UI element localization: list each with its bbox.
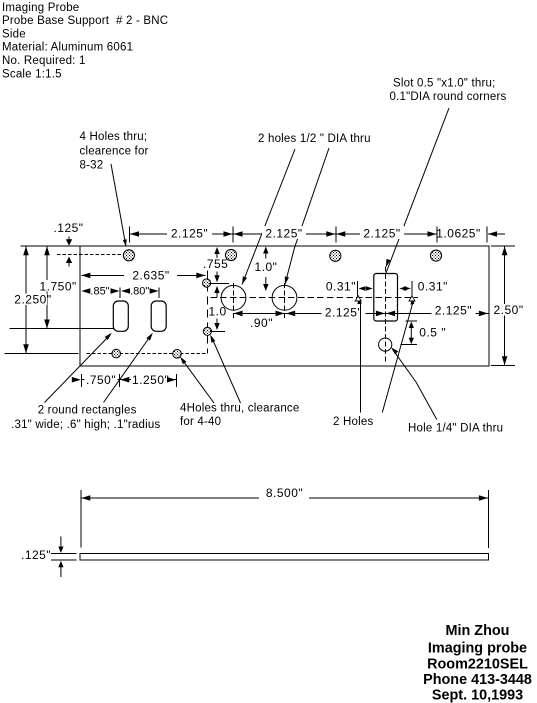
arrow left end of 2.125 to slot bbox=[286, 311, 295, 317]
label: 2 holes 1/2 DIA thru bbox=[258, 133, 371, 145]
hole H3 8-32 clearance bbox=[330, 250, 341, 261]
centerline bottom 4-40 row (dashed) bbox=[87, 353, 208, 355]
hole S4 4-40 clearance bbox=[173, 350, 182, 359]
tick at right edge bbox=[486, 227, 488, 243]
svg-text:Phone 413-3448: Phone 413-3448 bbox=[423, 672, 532, 688]
svg-text:2 holes 1/2 " DIA thru: 2 holes 1/2 " DIA thru bbox=[258, 133, 371, 145]
dimension 8.500 bbox=[81, 486, 488, 501]
title text: Probe Base Support # 2 - BNC bbox=[2, 15, 168, 27]
centerline vertical hole U2 (dashed) bbox=[284, 283, 286, 318]
svg-text:.125": .125" bbox=[53, 221, 83, 235]
leader to hole Q1 bbox=[391, 348, 437, 420]
extension line at 1/4 hole centerline bbox=[401, 344, 418, 346]
dimension 1.750 left bbox=[39, 246, 77, 328]
hole U1 1/2 DIA bbox=[221, 285, 246, 310]
leader 2 Holes left bbox=[355, 296, 362, 413]
svg-text:Sept. 10,1993: Sept. 10,1993 bbox=[432, 688, 523, 703]
extension line right for 8.500 bbox=[487, 490, 489, 548]
svg-text:1.0": 1.0" bbox=[255, 260, 278, 274]
extension line for 1.750 bbox=[9, 328, 113, 330]
hole S3 4-40 clearance bbox=[112, 349, 121, 358]
tick at hole H2 bbox=[232, 227, 234, 243]
svg-text:2 round rectangles: 2 round rectangles bbox=[38, 405, 137, 417]
svg-text:Material: Aluminum 6061: Material: Aluminum 6061 bbox=[2, 42, 133, 54]
arrow outside right for 1.0625 bbox=[488, 231, 497, 237]
dimension .755 bbox=[203, 247, 228, 282]
arrows .90 bbox=[234, 311, 285, 317]
svg-text:Probe Base Support # 2 - BNC: Probe Base Support # 2 - BNC bbox=[2, 15, 168, 27]
label: 4Holes thru clearance for 4-40 bbox=[180, 403, 299, 428]
tick at R1 center bbox=[119, 374, 121, 387]
hole H1 8-32 clearance bbox=[123, 250, 134, 261]
hole S2 4-40 clearance bbox=[203, 327, 211, 335]
tick at hole S4 bbox=[176, 374, 178, 387]
dimension text .90 bbox=[250, 316, 273, 330]
svg-text:0.31": 0.31" bbox=[418, 280, 448, 294]
svg-text:Imaging probe: Imaging probe bbox=[428, 641, 527, 657]
dimension text 1.250 bbox=[131, 373, 169, 387]
svg-text:clearence for: clearence for bbox=[80, 146, 149, 158]
hole S1 4-40 clearance bbox=[203, 279, 211, 287]
signature: Min Zhou bbox=[446, 623, 510, 639]
arrows segment1 bbox=[130, 231, 233, 237]
signature: Sept. 10,1993 bbox=[432, 688, 523, 703]
label: 4 Holes thru clearence for 8-32 bbox=[80, 131, 149, 172]
dimension text 2.125 to edge bbox=[432, 304, 476, 318]
svg-text:Room2210SEL: Room2210SEL bbox=[427, 657, 528, 673]
title text: No. Required: 1 bbox=[2, 55, 86, 67]
svg-text:1.0625": 1.0625" bbox=[436, 227, 480, 241]
centerline vertical hole U1 (dashed) bbox=[233, 283, 235, 318]
dimension text 2.125 third bbox=[360, 226, 404, 241]
side view plate outline bbox=[80, 554, 489, 561]
dimension .125 thickness bbox=[21, 537, 77, 578]
dimension 2.250 left bbox=[14, 246, 52, 353]
svg-text:for 4-40: for 4-40 bbox=[180, 416, 221, 428]
signature: Room2210SEL bbox=[427, 657, 528, 673]
hole H2 8-32 clearance bbox=[225, 249, 236, 260]
rounded rectangle R2 bbox=[151, 301, 166, 331]
dimension 0.5 bbox=[406, 321, 447, 344]
svg-text:4Holes thru, clearance: 4Holes thru, clearance bbox=[180, 403, 299, 415]
svg-text:Hole 1/4" DIA thru: Hole 1/4" DIA thru bbox=[408, 423, 503, 435]
title text: Imaging Probe bbox=[2, 2, 79, 14]
label: Slot 0.5 x1.0 thru 0.1 DIA round corners bbox=[390, 78, 507, 104]
extension stub at hole S1 bbox=[209, 282, 230, 284]
leader to hole U1 bbox=[242, 149, 295, 285]
tick at hole H3 bbox=[335, 227, 337, 243]
svg-text:.750": .750" bbox=[86, 373, 116, 387]
slot 0.5x1.0 bbox=[374, 274, 398, 322]
extension stub at hole S2 bbox=[210, 330, 225, 332]
dimension 0.31 right of slot bbox=[399, 280, 448, 297]
dimension 1.0 inch from top edge bbox=[255, 247, 278, 292]
svg-text:Min Zhou: Min Zhou bbox=[446, 623, 510, 639]
svg-text:.125": .125" bbox=[21, 548, 51, 562]
svg-text:Imaging Probe: Imaging Probe bbox=[2, 2, 79, 14]
signature: Phone 413-3448 bbox=[423, 672, 532, 688]
label: 2 round rectangles bbox=[11, 405, 160, 431]
arrows 1.250 bbox=[120, 377, 176, 383]
tick at hole H4 bbox=[436, 227, 438, 243]
svg-text:2.50": 2.50" bbox=[494, 303, 524, 317]
signature: Imaging probe bbox=[428, 641, 527, 657]
dimension row .750 / 1.250 below plate bbox=[81, 379, 176, 381]
dimension text 1.0625 bbox=[436, 227, 480, 241]
svg-text:2.250": 2.250" bbox=[14, 293, 51, 307]
leader 2 Holes right bbox=[382, 296, 415, 413]
dimension 0.31 left of slot bbox=[326, 280, 373, 297]
plate front view outline bbox=[80, 246, 489, 366]
arrows at slot center bbox=[376, 311, 395, 317]
top edge extension line bbox=[20, 245, 80, 247]
rounded rectangle R1 bbox=[113, 301, 128, 331]
hole U2 1/2 DIA bbox=[272, 285, 297, 310]
leader to hole U2 bbox=[285, 148, 329, 285]
dimension .125 top left bbox=[53, 221, 83, 267]
centerline vertical slot and 1/4 hole (dashed) bbox=[385, 267, 387, 364]
dimension text 2.125 first bbox=[167, 226, 212, 241]
dimension text 2.125 second bbox=[262, 226, 306, 241]
hole Q1 1/4 DIA bbox=[379, 338, 392, 351]
title text: Scale 1:1.5 bbox=[2, 68, 62, 80]
svg-text:2.125": 2.125" bbox=[363, 227, 400, 241]
svg-text:8.500": 8.500" bbox=[266, 486, 303, 500]
svg-text:1.0: 1.0 bbox=[209, 305, 227, 319]
svg-text:0.1"DIA round corners: 0.1"DIA round corners bbox=[390, 91, 507, 103]
dimension .80 bbox=[121, 286, 159, 299]
svg-text:Side: Side bbox=[2, 29, 26, 41]
dimension text 2.125 to slot bbox=[322, 306, 366, 320]
dimension 2.50 right side bbox=[492, 246, 524, 365]
extension line left for 8.500 bbox=[80, 490, 82, 548]
leader to 8-32 hole H1 bbox=[111, 164, 127, 247]
svg-text:2.125": 2.125" bbox=[171, 227, 208, 241]
svg-text:0.31": 0.31" bbox=[326, 280, 356, 294]
centerline main horizontal (dashed) bbox=[211, 297, 419, 299]
leader to hole S4 bbox=[180, 357, 214, 404]
svg-text:.31" wide; .6" high; .1"radius: .31" wide; .6" high; .1"radius bbox=[11, 419, 160, 431]
label: Hole 1/4 DIA thru bbox=[408, 423, 503, 435]
arrows segment2 bbox=[234, 231, 336, 237]
title text: Material: Aluminum 6061 bbox=[2, 42, 133, 54]
svg-text:.80": .80" bbox=[130, 286, 149, 298]
dimension row .90 / 2.125 / 2.125 line bbox=[234, 312, 489, 314]
dimension .85 bbox=[81, 286, 120, 299]
svg-text:2.125": 2.125" bbox=[265, 227, 302, 241]
leader to rounded rectangle R1 bbox=[45, 333, 112, 403]
svg-text:.90": .90" bbox=[250, 316, 273, 330]
svg-text:.85": .85" bbox=[90, 286, 109, 298]
tick at hole H1 bbox=[129, 227, 131, 243]
svg-text:0.5 ": 0.5 " bbox=[419, 326, 446, 340]
outside arrow for .750 bbox=[72, 377, 81, 383]
hole H4 8-32 clearance bbox=[430, 250, 441, 261]
leader to rounded rectangle R2 bbox=[104, 333, 153, 403]
title text: Side bbox=[2, 29, 26, 41]
svg-text:1.250": 1.250" bbox=[132, 373, 169, 387]
arrows segment3 bbox=[336, 231, 436, 237]
leader to slot bbox=[386, 108, 449, 274]
dimension row 2.125 x3 and 1.0625 line bbox=[130, 233, 506, 235]
svg-text:4 Holes thru;: 4 Holes thru; bbox=[80, 131, 148, 143]
dimension text .750 bbox=[85, 373, 118, 387]
svg-text:No. Required: 1: No. Required: 1 bbox=[2, 55, 86, 67]
extension line bottom right bbox=[491, 365, 515, 367]
svg-text:2.635": 2.635" bbox=[132, 269, 169, 283]
svg-text:2.125": 2.125" bbox=[435, 304, 472, 318]
svg-text:.755: .755 bbox=[203, 257, 228, 271]
svg-text:8-32: 8-32 bbox=[80, 160, 104, 172]
centerline vertical 4-40 holes (dashed) bbox=[206, 271, 208, 354]
label: 2 Holes bbox=[333, 416, 373, 428]
extension line for 2.250 bbox=[5, 352, 79, 354]
dimension 2.635 bbox=[81, 269, 205, 283]
centerline of top hole row (dashed) bbox=[57, 254, 123, 256]
tick below left edge bbox=[80, 374, 82, 387]
leader to hole S2 bbox=[210, 335, 240, 403]
arrow at right edge bbox=[479, 311, 488, 317]
svg-text:1.750": 1.750" bbox=[40, 280, 77, 294]
svg-text:Slot 0.5 "x1.0" thru;: Slot 0.5 "x1.0" thru; bbox=[393, 78, 496, 90]
svg-text:2.125": 2.125" bbox=[325, 306, 362, 320]
svg-text:2 Holes: 2 Holes bbox=[333, 416, 373, 428]
extension line top right bbox=[491, 245, 515, 247]
dimension 1.0 left chain bbox=[209, 286, 227, 330]
svg-text:Scale 1:1.5: Scale 1:1.5 bbox=[2, 68, 62, 80]
